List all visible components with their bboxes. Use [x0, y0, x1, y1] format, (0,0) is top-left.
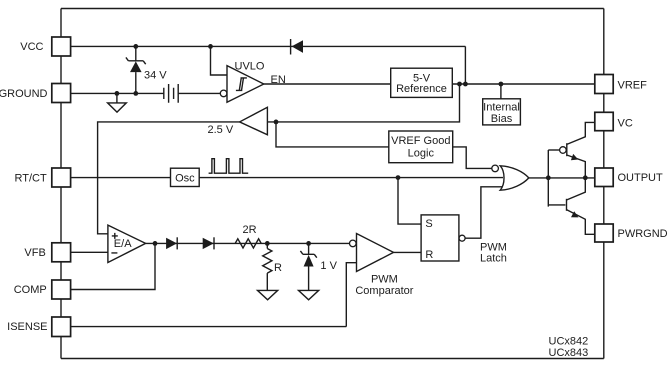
clock waveform	[209, 159, 249, 174]
node internal-bias tap	[499, 82, 504, 87]
transistor Q1 (top, with inverting bubble)	[560, 122, 595, 177]
pin PWRGND	[595, 224, 668, 242]
pin GROUND	[0, 84, 71, 103]
resistor R	[263, 243, 282, 290]
pin ISENSE	[7, 317, 70, 337]
wire GROUND rail	[71, 92, 164, 94]
wire ISENSE to PWM comparator	[346, 263, 356, 327]
wire E/A output	[146, 242, 350, 244]
wire VREF-good to OR gate	[453, 147, 492, 169]
svg-text:RT/CT: RT/CT	[15, 173, 47, 185]
node 2R-R junction	[265, 241, 270, 246]
wire VFB to E/A inverting input	[71, 251, 108, 253]
node driver-base junction	[546, 175, 551, 180]
label UCx842 / UCx843	[549, 335, 589, 359]
op-amp U2 PWM comparator	[350, 234, 414, 298]
wire PWM comparator to latch R	[394, 251, 422, 253]
block Osc	[171, 168, 200, 186]
svg-text:PWRGND: PWRGND	[618, 228, 668, 240]
node ground-symbol junction	[115, 91, 120, 96]
wire VREF rail	[452, 83, 595, 85]
buffer 2.5 V (pointing left)	[208, 107, 268, 136]
zener D2 34 V	[126, 46, 167, 93]
ground symbol (under 1V zener)	[299, 290, 319, 299]
ground symbol (under R)	[258, 290, 278, 299]
ground symbol (under GROUND pin)	[108, 93, 127, 112]
wire RT/CT to Osc	[71, 177, 171, 179]
wire ISENSE	[71, 326, 347, 328]
pin RT/CT	[15, 168, 71, 187]
wire top base feed	[548, 149, 559, 151]
node latch-S tap	[396, 175, 401, 180]
hysteresis symbol inside UVLO	[236, 78, 247, 91]
svg-text:Bias: Bias	[491, 113, 513, 125]
svg-text:Osc: Osc	[175, 172, 195, 184]
wire 2.5V to E/A non-inverting input	[98, 122, 240, 234]
wire VREF to 2.5V buffer	[267, 84, 459, 122]
wire OR output to output stage	[529, 177, 595, 179]
block VREF Good Logic	[389, 131, 453, 163]
svg-text:UVLO: UVLO	[235, 61, 265, 73]
block 5-V Reference	[391, 68, 453, 97]
wire E/A output to COMP	[71, 243, 155, 289]
wire EN	[264, 83, 391, 85]
svg-text:E/A: E/A	[114, 238, 132, 250]
diode D3	[166, 237, 177, 249]
diode D4	[203, 237, 214, 249]
svg-text:34 V: 34 V	[144, 69, 167, 81]
svg-text:R: R	[274, 262, 282, 274]
svg-text:1 V: 1 V	[320, 260, 337, 272]
battery reference (UVLO threshold)	[164, 84, 178, 103]
transistor Q2 (bottom)	[567, 178, 595, 235]
resistor 2R	[235, 224, 261, 248]
gate U4 OR	[492, 165, 529, 190]
svg-text:R: R	[425, 249, 433, 261]
svg-text:VCC: VCC	[20, 41, 43, 53]
wire VCC rail	[71, 45, 466, 47]
node zener-1V junction	[306, 241, 311, 246]
svg-text:UCx843: UCx843	[549, 347, 589, 359]
svg-text:2.5 V: 2.5 V	[208, 124, 234, 136]
wire VCC sense to UVLO top input	[211, 46, 228, 75]
wire VCC rail to VREF rail	[464, 46, 466, 84]
pin COMP	[14, 280, 71, 299]
op-amp U1 UVLO comparator	[220, 61, 265, 103]
op-amp E/A error amplifier	[108, 225, 146, 262]
node output-emitter junction	[583, 175, 588, 180]
svg-text:VREF Good: VREF Good	[391, 135, 450, 147]
wire latch output to OR gate	[465, 187, 503, 238]
svg-text:OUTPUT: OUTPUT	[618, 172, 664, 184]
wire internal bias feed	[500, 84, 502, 99]
zener D5 1 V	[300, 243, 337, 290]
IC outline border	[61, 9, 604, 359]
node bootstrap diode junction	[463, 82, 468, 87]
svg-text:S: S	[425, 218, 432, 230]
svg-text:GROUND: GROUND	[0, 88, 48, 100]
svg-text:2R: 2R	[243, 224, 257, 236]
block Internal Bias	[483, 99, 521, 125]
svg-text:PWM: PWM	[371, 273, 398, 285]
svg-text:VC: VC	[618, 117, 633, 129]
pin VREF	[595, 75, 647, 94]
svg-text:ISENSE: ISENSE	[7, 321, 47, 333]
pin VFB	[24, 243, 70, 262]
wire VREF-good feed	[276, 122, 389, 147]
pin VC	[595, 112, 633, 130]
wire base drive bus	[547, 150, 549, 207]
pin VCC	[20, 37, 70, 56]
svg-text:VFB: VFB	[24, 247, 45, 259]
latch U3 PWM latch	[421, 215, 507, 265]
svg-text:Internal: Internal	[483, 101, 520, 113]
svg-text:Comparator: Comparator	[355, 285, 413, 297]
node E/A output junction	[153, 241, 158, 246]
svg-text:UCx842: UCx842	[549, 335, 589, 347]
pin OUTPUT	[595, 168, 663, 187]
svg-text:VREF: VREF	[618, 79, 648, 91]
wire bottom base feed	[548, 204, 565, 206]
wire battery to UVLO input	[178, 92, 220, 94]
node VCC-zener junction	[133, 44, 138, 49]
wire clock to latch S input	[398, 178, 421, 225]
wire Osc to OR gate	[199, 177, 503, 179]
node VREF-good tap	[274, 120, 279, 125]
svg-text:Reference: Reference	[396, 83, 447, 95]
node zener-ground junction	[133, 91, 138, 96]
node VCC-UVLO junction	[208, 44, 213, 49]
diode D1 (top, pointing left)	[291, 39, 303, 55]
svg-text:Logic: Logic	[408, 148, 435, 160]
svg-text:COMP: COMP	[14, 284, 47, 296]
svg-text:Latch: Latch	[480, 252, 507, 264]
node 2.5V tap	[457, 82, 462, 87]
